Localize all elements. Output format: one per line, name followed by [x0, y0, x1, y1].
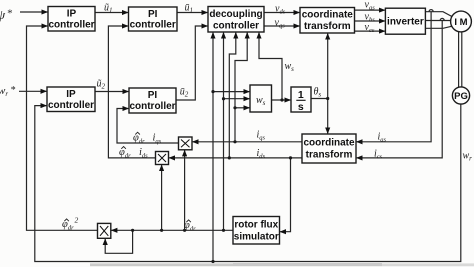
multiplier M1	[179, 137, 193, 150]
svg-text:controller: controller	[129, 101, 175, 112]
svg-text:vds: vds	[275, 4, 286, 16]
svg-text:IP: IP	[66, 89, 76, 100]
svg-text:wr: wr	[463, 151, 473, 163]
wire wr vertical to decoupling arrow1	[212, 33, 214, 262]
block PI controller 2	[129, 88, 176, 113]
svg-text:ias: ias	[378, 131, 387, 143]
svg-text:controller: controller	[213, 20, 259, 31]
wire ids branch to decoupling arrow3	[229, 33, 236, 158]
wire ws branch up to decoupling arrow5	[259, 33, 282, 100]
wire u2bar PI2 output to decoupling input2	[176, 26, 207, 100]
block texts	[48, 8, 468, 242]
wire iqs branch to decoupling arrow4	[235, 33, 247, 142]
svg-text:iqs: iqs	[153, 133, 162, 146]
svg-text:ws: ws	[285, 61, 295, 73]
svg-text:ũ2: ũ2	[97, 79, 106, 91]
block PI controller 1	[129, 7, 178, 31]
svg-text:1: 1	[298, 89, 304, 101]
block IP controller 2	[47, 87, 95, 112]
wire ics measurement to CT2	[357, 21, 443, 158]
svg-text:PI: PI	[148, 90, 158, 101]
svg-text:inverter: inverter	[387, 17, 424, 28]
wire vas CT1 to inverter	[355, 9, 385, 11]
wire u1tilde IP1 to PI1	[95, 12, 128, 14]
svg-text:φdr: φdr	[133, 133, 145, 146]
wire M1 output to PI2 input2	[117, 109, 179, 144]
block coordinate transform 1	[300, 8, 355, 34]
wire inverter phase b to IM	[425, 20, 450, 22]
svg-text:PI: PI	[148, 9, 158, 20]
wire vbs CT1 to inverter	[355, 20, 385, 22]
svg-text:ψ: ψ	[0, 7, 6, 22]
wire thetas down to CT2 top	[327, 99, 329, 134]
svg-text:coordinate: coordinate	[303, 137, 355, 148]
block decoupling controller	[208, 7, 264, 33]
svg-text:φdr: φdr	[119, 147, 131, 160]
svg-text:ū2: ū2	[180, 87, 189, 99]
svg-text:φdr: φdr	[184, 220, 196, 233]
wire inverter phase a to IM	[425, 12, 452, 17]
wire ias measurement to CT2	[357, 12, 432, 142]
tap bump phase b	[440, 18, 444, 20]
wire u2tilde IP2 to PI2	[95, 91, 128, 93]
svg-text:controller: controller	[130, 20, 176, 31]
wire ids line CT2 to M2	[169, 157, 302, 159]
wire iqs line CT2 to M1	[193, 141, 302, 143]
wire M2 output to PI1 input2	[108, 26, 155, 158]
svg-text:transform: transform	[304, 21, 351, 32]
svg-text:ids: ids	[139, 147, 148, 160]
pulse generator PG	[452, 87, 469, 104]
svg-text:coordinate: coordinate	[302, 9, 354, 20]
block ws calculator	[250, 85, 272, 112]
svg-text:*: *	[10, 85, 15, 96]
wire ids tap to rotor flux simulator	[280, 158, 290, 232]
wire ws input3 from iqs branch	[235, 107, 249, 109]
wire flux feedback from M3 output to IP1 input2	[27, 26, 98, 230]
svg-text:vas: vas	[365, 0, 376, 11]
svg-text:2: 2	[75, 216, 79, 225]
wire u1bar PI1 to decoupling	[177, 12, 207, 14]
svg-text:wr: wr	[0, 85, 8, 98]
wire shaft IM to PG left	[458, 31, 460, 87]
multiplier M2	[156, 152, 169, 165]
svg-text:*: *	[7, 8, 13, 20]
wire ws output to 1/s	[272, 99, 291, 101]
svg-text:I M: I M	[454, 17, 467, 28]
block rotor flux simulator	[233, 217, 280, 245]
svg-text:φdr: φdr	[62, 219, 74, 232]
wire thetas up to CT1 bottom	[327, 34, 329, 99]
wire wr* input	[19, 90, 46, 92]
svg-text:PG: PG	[454, 91, 468, 102]
svg-text:controller: controller	[48, 100, 94, 111]
svg-text:transform: transform	[306, 149, 353, 160]
svg-text:controller: controller	[48, 19, 94, 30]
wire shaft IM to PG right	[461, 32, 463, 87]
svg-text:iqs: iqs	[257, 130, 266, 142]
wire phidr vertical to decoupling arrow2	[223, 33, 225, 231]
svg-text:ids: ids	[257, 148, 266, 160]
svg-text:IP: IP	[67, 8, 77, 19]
wire ws input2 from phidr vertical	[224, 98, 250, 100]
wire psi* input	[20, 11, 47, 13]
wire phidr feed up to M2	[161, 165, 163, 230]
wire phidr main line simulator to M3	[111, 229, 233, 231]
wire vcs CT1 to inverter	[355, 30, 385, 32]
svg-text:ū1: ū1	[185, 2, 194, 14]
wire vqs decoupling to coordinate transform 1	[264, 25, 299, 27]
wire thetas horizontal from 1/s	[311, 98, 328, 100]
wire phidr loop to M3 bottom	[105, 230, 132, 253]
wire ws input1 from wr vertical	[213, 91, 249, 93]
multiplier X marks	[100, 140, 190, 236]
wire vds decoupling to coordinate transform 1	[264, 12, 299, 14]
wire wr feedback from PG to IP2 input2	[35, 104, 461, 262]
wire phidr feed up to M1	[184, 150, 186, 230]
wire inverter phase c to IM	[425, 26, 452, 28]
scan artifact bottom band	[90, 263, 474, 266]
block IP controller 1	[48, 7, 95, 32]
block integrator 1/s	[291, 87, 311, 112]
svg-text:s: s	[298, 101, 304, 113]
svg-text:ũ1: ũ1	[104, 2, 113, 14]
svg-text:decoupling: decoupling	[209, 9, 262, 20]
svg-text:rotor flux: rotor flux	[234, 220, 278, 231]
svg-text:simulator: simulator	[234, 232, 279, 243]
svg-text:θs: θs	[314, 86, 322, 98]
svg-text:ics: ics	[374, 148, 383, 160]
multiplier M3	[98, 223, 111, 238]
motor IM	[451, 11, 472, 32]
svg-text:vqs: vqs	[275, 18, 286, 30]
block inverter	[385, 8, 425, 34]
block coordinate transform 2	[302, 134, 356, 163]
tap bump phase a	[429, 10, 433, 12]
